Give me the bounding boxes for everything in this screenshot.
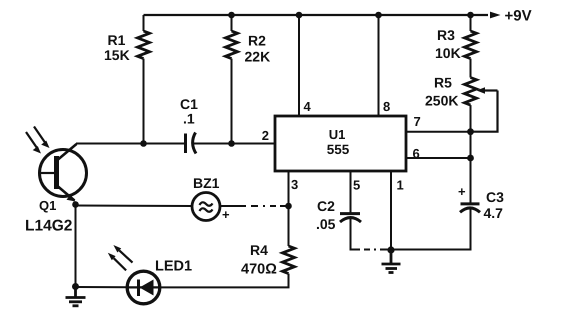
node ground right	[387, 246, 394, 253]
resistor R4	[283, 246, 295, 274]
svg-text:LED1: LED1	[155, 259, 192, 275]
potentiometer R5	[465, 78, 498, 132]
svg-text:+: +	[458, 184, 466, 199]
wire R3 top lead	[470, 15, 472, 31]
svg-text:15K: 15K	[104, 47, 130, 63]
wire R3 to R5	[470, 59, 472, 78]
wire Q1 collector to C1	[76, 143, 186, 145]
svg-text:L14G2: L14G2	[25, 218, 72, 235]
LED LED1	[127, 271, 160, 304]
svg-text:C3: C3	[486, 189, 504, 205]
svg-text:250K: 250K	[425, 93, 458, 109]
svg-text:R1: R1	[108, 32, 126, 48]
node R2 bottom	[228, 140, 235, 147]
node pin6 junction	[467, 155, 474, 162]
ground left	[66, 287, 86, 306]
wire pin8 riser	[378, 15, 380, 116]
wire C1 to pin2	[194, 143, 276, 145]
transistor Q1 phototransistor	[40, 144, 87, 202]
capacitor C2	[340, 214, 361, 222]
svg-text:7: 7	[414, 114, 421, 129]
wire pin7 node to pin6 node	[470, 132, 472, 158]
node Q1 emitter junction	[72, 201, 79, 208]
svg-text:R5: R5	[434, 75, 452, 91]
node R3 top	[467, 12, 474, 19]
svg-text:Q1: Q1	[39, 198, 56, 213]
capacitor C3	[460, 204, 480, 212]
svg-text:10K: 10K	[435, 45, 461, 61]
svg-text:2: 2	[262, 128, 269, 143]
svg-text:470Ω: 470Ω	[241, 262, 277, 278]
svg-text:+: +	[222, 207, 230, 222]
wire C2 bottom to ground node	[351, 219, 392, 250]
node R2 top	[228, 12, 235, 19]
node pin8 top	[375, 12, 382, 19]
wire pin6 node to C3	[470, 158, 472, 203]
wire emitter down to ground	[75, 205, 77, 288]
wire pin5 down	[350, 171, 352, 214]
buzzer BZ1	[192, 193, 220, 221]
ground right	[382, 250, 401, 273]
wire pin4 riser	[298, 15, 300, 116]
svg-text:3: 3	[291, 177, 298, 192]
+9V arrow	[490, 12, 501, 19]
svg-text:BZ1: BZ1	[193, 175, 220, 191]
wire emitter to BZ1	[76, 205, 193, 208]
svg-text:555: 555	[327, 142, 350, 157]
wire BZ1 to pin3 (dashed)	[220, 205, 289, 207]
wire R1 top lead	[143, 15, 145, 31]
svg-text:4: 4	[304, 99, 312, 114]
wire C3 bottom to ground wire	[391, 210, 471, 250]
resistor R1	[138, 31, 150, 59]
svg-text:22K: 22K	[245, 49, 271, 65]
wire pin7 to R5 junction	[406, 131, 471, 133]
svg-text:5: 5	[353, 178, 360, 193]
resistor R3	[465, 31, 477, 59]
node pin4 top	[296, 12, 303, 19]
wire ground to LED1	[76, 286, 128, 288]
wire R2 top lead	[231, 15, 233, 31]
wire pin1 down	[390, 171, 392, 250]
wire R1 bottom lead	[143, 59, 145, 144]
node R1 bottom	[140, 140, 147, 147]
svg-text:.05: .05	[316, 216, 336, 232]
svg-text:R2: R2	[248, 33, 266, 49]
node ground left	[72, 283, 79, 290]
light arrows into Q1	[26, 127, 50, 154]
node pin3 buzzer junction	[285, 203, 292, 210]
wire pin3 down	[288, 171, 290, 246]
wire R2 bottom lead	[231, 59, 233, 144]
svg-text:+9V: +9V	[505, 8, 532, 25]
op-amp U1 555 box	[275, 116, 406, 171]
svg-text:.1: .1	[183, 111, 195, 127]
svg-text:R3: R3	[437, 27, 455, 43]
wire top power rail	[144, 14, 489, 16]
resistor R2	[226, 31, 238, 59]
wire LED1 to R4 bottom	[160, 274, 289, 288]
wire pin6 to C3 junction	[406, 157, 471, 159]
svg-text:R4: R4	[250, 242, 268, 258]
light arrows out of LED1	[108, 245, 133, 270]
svg-text:1: 1	[397, 178, 404, 193]
svg-text:4.7: 4.7	[484, 205, 504, 221]
svg-text:U1: U1	[329, 127, 346, 142]
svg-text:C2: C2	[317, 198, 335, 214]
svg-text:8: 8	[383, 99, 390, 114]
capacitor C1	[186, 133, 197, 154]
wire R5 bottom lead	[470, 105, 472, 132]
node pin7 junction	[467, 128, 474, 135]
